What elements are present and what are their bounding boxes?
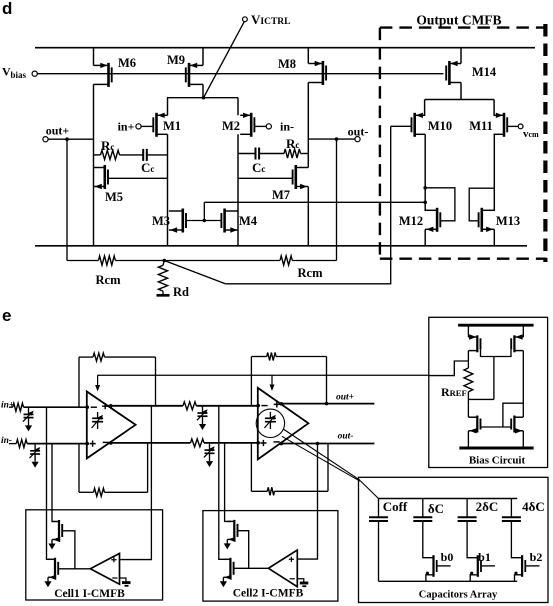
svg-text:bias: bias [11,70,27,80]
box Bias Circuit [429,317,548,467]
wire bias VDD bar [458,324,533,327]
box Capacitors Array [359,477,549,602]
transistor bias PMOS left [476,335,478,352]
resistor feedback Cell1 bottom [78,444,80,493]
wire M8 source column to M7 drain [307,83,309,168]
wire bias NMOS diode loop [503,403,523,427]
wire bias gate to Rref node [493,357,495,400]
svg-text:M5: M5 [105,190,123,204]
node Rcm Rd junction [163,259,167,263]
transistor bias NMOS left [476,416,478,433]
transistor M10 [413,113,416,137]
transistor M4 [223,209,226,233]
wire Cell2 CMFB output [234,567,269,569]
wire gate node riser [203,202,205,220]
wire bias NMOS gates [481,426,512,428]
transistor Cell2 CMFB lower [229,558,231,579]
svg-text:Cell1 I-CMFB: Cell1 I-CMFB [54,588,125,600]
node vcm [518,124,523,129]
svg-text:M4: M4 [239,214,258,228]
wire M9 drain to VDD [202,48,204,66]
svg-text:Rcm: Rcm [96,273,122,287]
ground Cell2 lower [222,577,224,581]
wire bias right column [522,351,524,418]
wire out+ to left column [48,138,93,140]
transistor Cell1 CMFB upper [58,520,60,541]
wire out+ level cell1-cell2 [108,405,183,407]
ground Cell2 upper [226,539,228,543]
ground Cell1 upper [51,540,53,544]
wire VSS ground rail [35,245,527,247]
transistor Cell1 CMFB lower [54,558,56,579]
svg-text:M11: M11 [469,119,493,133]
svg-text:out-: out- [338,432,354,442]
svg-text:M9: M9 [167,53,185,67]
resistor Cell2 in+ [183,402,196,410]
wire out+ down to Rcm [66,139,68,260]
svg-text:vcm: vcm [523,128,539,140]
svg-text:M10: M10 [428,119,452,133]
resistor input in+ [9,406,13,408]
capacitor dC switch b0 [422,499,424,518]
wire M11 gate to vcm [508,125,519,127]
wire tail node [167,97,238,99]
svg-text:Coff: Coff [383,499,408,514]
resistor Rcm left [67,260,98,262]
wire bias NMOS right source [522,431,524,448]
svg-text:b2: b2 [530,550,543,564]
box Cell1 I-CMFB [26,510,163,600]
transistor M9 [188,63,191,87]
ground Cell2 CMFB opamp [297,579,304,583]
wire detail line to Coff [360,481,379,499]
wire M2 drain drop [237,98,239,116]
wire M7 source to VSS [307,187,309,246]
wire M1 drain drop [167,98,169,116]
resistor feedback Cell2 top [250,357,252,406]
wire M10 gate [391,125,412,127]
wire Cell1 in+ sense [47,407,52,559]
wire M7 gate to node [238,177,293,179]
wire caps top bus [379,498,518,500]
svg-text:2δC: 2δC [476,499,499,514]
svg-text:M6: M6 [118,56,136,70]
wire VDD rail [35,47,535,49]
resistor feedback Cell1 top [78,357,80,407]
resistor feedback Cell2 bottom [250,443,252,492]
op-amp Cell2 CMFB [268,550,297,587]
svg-text:M1: M1 [163,119,181,133]
wire control line entry [429,361,469,376]
wire Cell1 upper gate [62,531,75,569]
resistor RREF [464,368,473,392]
capacitor trim Cell1 internal [97,412,99,418]
transistor bias NMOS right [513,416,515,433]
svg-text:b0: b0 [441,550,454,564]
wire M5 gate to node [108,177,168,179]
wire M6 source column [93,84,95,245]
wire caps bottom bus [379,580,518,582]
transistor M7 [295,165,298,189]
svg-text:δC: δC [428,501,444,516]
node VICTRL [243,17,248,22]
capacitor Cc left [142,149,144,161]
wire in+ to M1 gate [141,125,153,127]
svg-text:M8: M8 [278,57,296,71]
capacitor Coff [378,499,380,518]
wire M13 diode loop [469,188,494,221]
wire bias left column upper [467,351,469,368]
wire Cell2 in+ sense [219,406,227,560]
wire M14 drain to VDD [460,48,462,64]
svg-text:RREF: RREF [441,385,467,399]
wire M1 source column [167,134,169,246]
wire M6 drain to VDD [93,48,95,66]
wire detail line upper [283,429,360,480]
node detail circle [256,409,284,437]
svg-text:M13: M13 [496,214,520,228]
svg-text:b1: b1 [478,550,491,564]
wire bias Rref node line [468,398,494,400]
svg-text:Rd: Rd [173,285,189,299]
svg-text:Bias Circuit: Bias Circuit [469,455,526,467]
capacitor 2dC switch b1 [466,499,468,518]
wire Cell1 CMFB output [58,568,90,570]
wire out- level cell1-cell2 [108,442,190,444]
transistor M2 [250,113,253,137]
transistor M11 [503,113,506,137]
transistor bias PMOS right [513,335,515,352]
wire CM sense to M10 gate [225,126,390,283]
wire Cell2 upper gate [238,531,249,569]
transistor M8 [322,61,325,85]
wire detail line lower [282,436,360,481]
wire Cell2 CMFB sense [297,444,317,560]
op-amp Cell2 [258,388,309,460]
ground Cell1 lower [47,577,49,581]
ground Cell1 CMFB opamp [120,578,127,583]
wire bias NMOS left source [467,431,469,448]
transistor M3 [182,209,185,233]
svg-text:in-: in- [280,120,294,134]
op-amp Cell1 [87,392,136,459]
wire M13 source to VSS [493,229,495,246]
svg-text:M14: M14 [472,65,497,79]
capacitor trim Cell2 internal [269,412,271,418]
svg-text:e: e [2,306,11,325]
wire M12 diode loop [425,188,455,221]
svg-text:d: d [2,0,12,18]
wire out- down to Rcm [336,139,338,260]
svg-text:in-: in- [1,436,12,446]
wire out- line [308,138,355,140]
wire CM sense diagonal [164,261,225,284]
wire CMFB control line to M12 [204,201,425,203]
svg-text:out+: out+ [336,393,354,403]
svg-text:4δC: 4δC [522,499,545,514]
wire M8 drain to VDD [307,48,309,64]
svg-text:Output CMFB: Output CMFB [416,13,501,28]
capacitor trim Cell2 in- [209,443,211,450]
wire Cell1 in- sense [52,444,55,522]
wire Cell1 CMFB sense [120,406,152,560]
box Output CMFB dashed [380,26,546,28]
capacitor Cc right [238,153,256,155]
capacitor trim in- [34,444,36,451]
wire tuning control line [98,374,429,376]
wire control arrow Cell2 [271,375,273,385]
resistor Rd [163,261,164,266]
svg-text:out+: out+ [46,124,70,138]
wire M14 source to tail [460,83,462,100]
resistor Rc right [259,153,284,155]
resistor input in- [9,443,16,445]
wire bias PMOS right drain [522,325,524,337]
capacitor trim Cell2 in+ [202,406,204,413]
wire CMFB tail [425,99,495,101]
ground Rd [157,294,170,297]
wire bias left column lower [467,392,469,418]
box Cell2 I-CMFB [203,511,338,601]
wire M10 source column [424,134,426,211]
wire M12 source to VSS [424,229,426,246]
wire M11 source column [493,134,495,211]
op-amp Cell1 CMFB [90,553,119,584]
wire out- output [281,443,375,445]
wire VICTRL to tail node [204,22,245,98]
wire bias PMOS left drain [467,325,469,337]
capacitor trim in+ [28,407,30,414]
wire M3 M4 gates [186,220,221,222]
wire M9 source to tail [202,84,204,97]
transistor M13 [481,208,484,232]
svg-text:in+: in+ [118,120,135,134]
svg-text:Cell2 I-CMFB: Cell2 I-CMFB [233,588,304,600]
svg-text:M12: M12 [399,214,423,228]
wire Vbias gate bus [37,73,443,75]
wire Cell2 in- sense [225,443,231,522]
wire out+ output [281,403,375,405]
wire M2 source column [237,134,239,246]
wire M10 drain drop [424,100,426,116]
transistor M12 [436,208,439,232]
wire bias PMOS gates [481,349,512,356]
transistor M6 [107,63,110,87]
svg-text:in+: in+ [1,401,14,411]
resistor Rc left [94,154,101,156]
transistor Cell2 CMFB upper [233,520,235,541]
resistor Rcm right [164,260,280,262]
transistor M1 [155,113,158,137]
svg-text:M7: M7 [272,188,290,202]
wire bias VSS bar [459,447,533,450]
transistor M14 [448,61,451,85]
resistor Cell2 in- [191,439,205,447]
wire control arrow Cell1 [97,375,99,386]
svg-text:M3: M3 [152,214,170,228]
capacitor 4dC switch b2 [510,499,512,518]
transistor M5 [104,165,107,189]
svg-text:Rcm: Rcm [298,266,324,280]
svg-text:M2: M2 [222,119,240,133]
wire M11 drain drop [493,100,495,116]
svg-text:Capacitors Array: Capacitors Array [419,590,498,601]
wire in- to M2 gate [255,125,267,127]
